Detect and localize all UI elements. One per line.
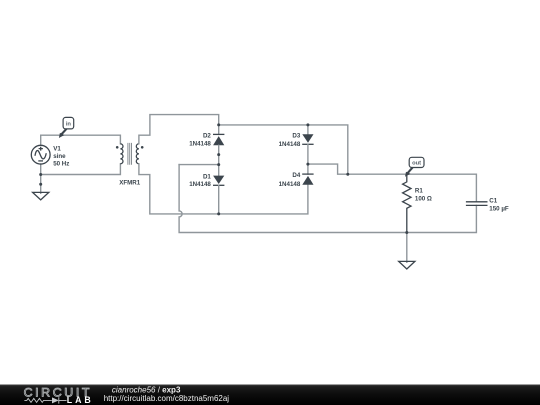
secondary winding	[136, 144, 139, 164]
wire top rail to out drop	[219, 125, 348, 174]
svg-text:1N4148: 1N4148	[189, 141, 211, 148]
ground under R1	[399, 233, 415, 270]
junction dot ground stem left	[39, 183, 42, 186]
wire secondary bottom to bridge bottom rail	[139, 164, 308, 214]
wire D2 anode to D1 anode column	[218, 145, 220, 175]
svg-text:1N4148: 1N4148	[279, 141, 301, 148]
core	[128, 143, 132, 165]
wire left jog with hop over bottom rail to ground rail	[179, 165, 476, 233]
junction dot D2-D1 column mid tap	[217, 163, 220, 166]
svg-text:D2: D2	[203, 132, 211, 139]
svg-text:R1: R1	[415, 187, 423, 194]
diode D1	[213, 176, 224, 186]
junction dot secondary top / D2 cathode	[217, 123, 220, 126]
wire V1 bottom to ground	[40, 175, 42, 185]
junction dot D3-D4 out tap	[306, 163, 309, 166]
wire out net: bridge mid to R1 and C1 top	[308, 164, 477, 202]
svg-text:D4: D4	[292, 172, 300, 179]
junction dot D1 cathode / bottom rail	[217, 212, 220, 215]
flag in	[59, 117, 74, 138]
wire D1 cathode to bottom rail	[218, 185, 220, 214]
wire D3 cathode to D4 cathode column	[307, 144, 309, 174]
flag out	[405, 157, 424, 177]
svg-text:LAB: LAB	[67, 395, 94, 405]
ground under V1	[33, 184, 49, 200]
svg-text:D1: D1	[203, 174, 211, 181]
resistor R1	[403, 174, 411, 232]
svg-text:D3: D3	[292, 133, 300, 140]
junction dot top rail / D3 anode	[306, 123, 309, 126]
svg-text:in: in	[66, 121, 72, 127]
svg-text:V1: V1	[53, 145, 61, 152]
diode D3	[302, 134, 313, 144]
junction dot out rail	[346, 173, 349, 176]
phase dot secondary	[141, 146, 144, 149]
wire transformer primary bottom to V1 bottom	[41, 164, 121, 175]
junction dot V1 bottom node	[39, 173, 42, 176]
wire V1 bottom stub	[40, 164, 42, 175]
wire D3 anode stub	[307, 125, 309, 134]
transformer XFMR1	[116, 143, 144, 165]
wire V1 top to transformer primary top	[41, 135, 121, 145]
svg-text:100 Ω: 100 Ω	[415, 195, 432, 202]
junction dot D2-D1 column upper	[217, 153, 220, 156]
svg-text:out: out	[412, 161, 421, 167]
wire mid junction to left jog	[179, 164, 219, 166]
junction dot R1 bottom / ground rail	[405, 231, 408, 234]
svg-text:C1: C1	[489, 197, 497, 204]
svg-text:1N4148: 1N4148	[189, 181, 211, 188]
diode D2	[213, 134, 224, 145]
primary winding	[120, 144, 123, 164]
svg-text:1N4148: 1N4148	[279, 181, 301, 188]
phase dot primary	[116, 146, 119, 149]
svg-text:XFMR1: XFMR1	[119, 179, 141, 186]
voltage source V1	[31, 145, 50, 164]
wire secondary top to bridge	[139, 115, 219, 144]
capacitor C1	[466, 202, 488, 206]
diode D4	[302, 174, 313, 185]
svg-text:http://circuitlab.com/c8bztna5: http://circuitlab.com/c8bztna5m62aj	[104, 394, 230, 403]
svg-text:50 Hz: 50 Hz	[53, 161, 69, 168]
svg-text:150 µF: 150 µF	[489, 206, 509, 213]
logo resistor-diode squiggle	[24, 397, 66, 403]
svg-text:sine: sine	[53, 153, 66, 160]
